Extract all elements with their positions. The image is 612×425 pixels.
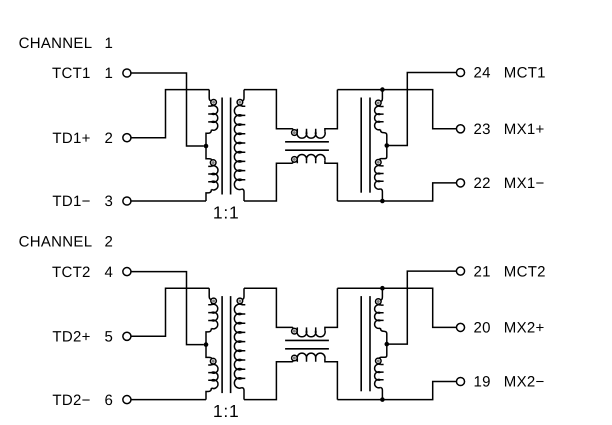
polarity dot A1 top (377, 101, 380, 104)
wire top rail to MX2+ pin (337, 288, 456, 327)
pin 24 MCT1 (456, 68, 464, 76)
transformer T2 core (221, 296, 223, 393)
svg-text:1:1: 1:1 (213, 401, 240, 421)
polarity dot A1 bottom (377, 161, 380, 164)
svg-text:6: 6 (105, 392, 114, 409)
autotransformer A1 top half winding (381, 90, 383, 102)
choke L2 top winding (292, 327, 293, 328)
junction: TCT2 center tap (204, 342, 209, 347)
svg-text:21: 21 (474, 263, 491, 280)
pin 23 MX1+ (456, 125, 464, 133)
wire secondary top to choke (244, 90, 292, 129)
wire secondary bottom to choke (244, 163, 292, 201)
svg-text:3: 3 (105, 193, 114, 210)
polarity dot T1 primary top (212, 101, 215, 104)
svg-text:23: 23 (474, 121, 491, 138)
svg-text:4: 4 (105, 264, 114, 281)
autotransformer A1 core (360, 98, 362, 193)
transformer T1 primary bottom half winding (206, 146, 212, 160)
junction: MCT2 center tap (385, 342, 390, 347)
svg-text:MX2+: MX2+ (504, 320, 545, 337)
transformer T1 secondary winding (242, 90, 244, 101)
polarity dot T1 secondary top (238, 101, 241, 104)
svg-text:TD2−: TD2− (52, 392, 90, 409)
svg-text:1: 1 (105, 65, 114, 82)
svg-text:MCT2: MCT2 (504, 263, 546, 280)
autotransformer A2 top half winding (381, 288, 383, 300)
pin 20 MX2+ (456, 323, 464, 331)
svg-text:TD2+: TD2+ (52, 328, 90, 345)
wire TD2+ pin to primary top (131, 288, 209, 336)
svg-text:MX1−: MX1− (504, 175, 545, 192)
choke L1 core (285, 141, 329, 143)
wire TCT1 pin to center tap (131, 73, 204, 146)
polarity dot choke bottom (293, 357, 296, 360)
svg-text:2: 2 (105, 130, 114, 147)
svg-text:MX2−: MX2− (504, 374, 545, 391)
wire TCT2 pin to center tap (131, 272, 204, 345)
svg-text:1:1: 1:1 (213, 203, 240, 223)
junction: autotransformer bottom to rail (380, 397, 385, 402)
wire MCT1 center tap to pin (387, 73, 457, 146)
svg-text:MX1+: MX1+ (504, 121, 545, 138)
wire secondary top to choke (244, 288, 292, 327)
pin 22 MX1− (456, 179, 464, 187)
transformer T2 primary bottom half winding (206, 345, 212, 359)
svg-text:TD1−: TD1− (52, 193, 90, 210)
polarity dot T2 primary top (212, 299, 215, 302)
junction: autotransformer bottom to rail (380, 199, 385, 204)
svg-text:TCT1: TCT1 (52, 65, 91, 82)
polarity dot A2 bottom (377, 359, 380, 362)
svg-text:19: 19 (474, 374, 491, 391)
junction: autotransformer top to rail (380, 87, 385, 92)
pin 21 MCT2 (456, 267, 464, 275)
wire bottom rail to MX2- pin (337, 382, 456, 400)
svg-text:24: 24 (474, 65, 491, 82)
polarity dot T2 secondary top (238, 299, 241, 302)
wire top rail to MX1+ pin (337, 90, 456, 129)
autotransformer A1 bottom half winding (379, 146, 387, 161)
wire TD1- pin to primary bottom (131, 200, 206, 202)
svg-text:TCT2: TCT2 (52, 264, 91, 281)
svg-text:CHANNEL: CHANNEL (19, 233, 93, 250)
choke L1 top winding (292, 129, 293, 130)
transformer T1 core (221, 98, 223, 195)
svg-text:1: 1 (105, 35, 114, 52)
svg-text:TD1+: TD1+ (52, 130, 90, 147)
svg-text:2: 2 (105, 233, 114, 250)
pin 19 MX2− (456, 377, 464, 385)
polarity dot A2 top (377, 300, 380, 303)
svg-text:22: 22 (474, 175, 491, 192)
polarity dot choke bottom (293, 158, 296, 161)
wire TD1+ pin to primary top (131, 90, 209, 138)
choke L2 bottom winding (292, 360, 293, 361)
svg-text:MCT1: MCT1 (504, 65, 546, 82)
junction: TCT1 center tap (204, 144, 209, 149)
wire TD2- pin to primary bottom (131, 399, 206, 401)
wire secondary bottom to choke (244, 362, 292, 400)
wire MCT2 center tap to pin (387, 271, 457, 344)
polarity dot choke top (293, 330, 296, 333)
transformer T2 primary top half winding (209, 288, 211, 299)
transformer T1 primary top half winding (209, 90, 211, 101)
polarity dot T1 primary bottom (212, 161, 215, 164)
transformer T2 secondary winding (242, 288, 244, 299)
junction: autotransformer top to rail (380, 286, 385, 291)
junction: MCT1 center tap (385, 143, 390, 148)
polarity dot T2 primary bottom (212, 360, 215, 363)
choke L1 bottom winding (292, 162, 293, 163)
svg-text:5: 5 (105, 328, 114, 345)
wire bottom rail to MX1- pin (337, 183, 456, 201)
choke L2 core (285, 339, 329, 341)
autotransformer A2 bottom half winding (379, 344, 387, 359)
polarity dot choke top (293, 131, 296, 134)
autotransformer A2 core (360, 296, 362, 391)
svg-text:20: 20 (474, 320, 491, 337)
svg-text:CHANNEL: CHANNEL (19, 35, 93, 52)
